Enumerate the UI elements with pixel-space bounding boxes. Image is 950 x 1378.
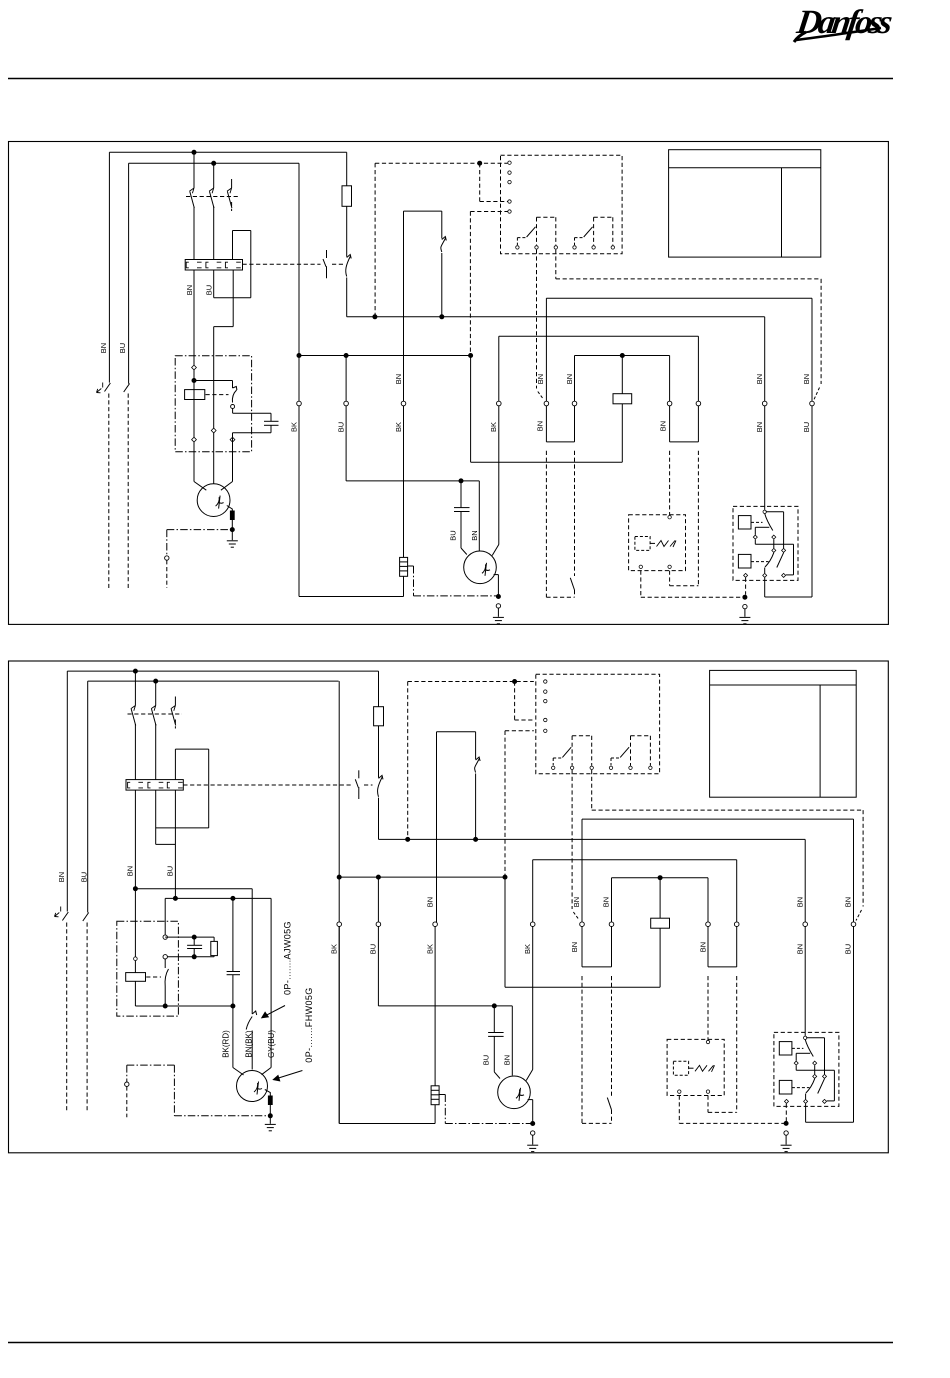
wire BN drop M2 d2 <box>511 1006 513 1076</box>
F1 trip link <box>243 263 321 265</box>
cord M2 drop d2 <box>444 1095 446 1124</box>
connector pin <box>192 437 197 442</box>
bottom rule <box>8 1342 893 1344</box>
wire to ground X1 <box>744 609 746 617</box>
wire relay left <box>164 898 166 934</box>
wire L1 left drop <box>108 152 110 382</box>
wire BN(BK) drop2 <box>251 1031 253 1070</box>
motor compressor M1 d2 <box>237 1071 268 1102</box>
terminal <box>530 922 535 927</box>
wire K4 return d2 <box>806 1121 854 1123</box>
junction <box>459 479 463 483</box>
bus coil d2 <box>612 877 709 879</box>
B1 d2 pin x591.7 <box>590 766 593 769</box>
wire cap top d2 <box>232 898 234 971</box>
wire BK3 drop d2 <box>532 927 534 1070</box>
svg-text:BN: BN <box>795 944 804 954</box>
B1 contact blade 2 <box>575 227 593 245</box>
run relay coil K3 d2 <box>651 918 670 928</box>
wire into heater3 <box>232 231 234 260</box>
lead tapers M2 d2 <box>494 1070 532 1081</box>
junction <box>231 896 235 900</box>
svg-text:BN: BN <box>755 374 764 384</box>
stub K1 pole3 out d2 <box>174 720 176 729</box>
wire to K1 pole2 <box>213 163 215 188</box>
cord M2 run <box>414 595 499 597</box>
contactor K1 pole 2 d2 <box>151 706 156 726</box>
motor fan M2 d2 <box>498 1076 531 1109</box>
start device X1 (dashed) <box>629 515 686 571</box>
terminal <box>344 401 349 406</box>
K4 loop right <box>793 544 795 575</box>
wire col BU1 d2 <box>377 877 379 922</box>
compartment M1 d2 (dash-dot) <box>117 921 179 1016</box>
ground X1 d2 <box>781 1145 792 1151</box>
terminal <box>376 922 381 927</box>
wire H898 <box>165 897 271 899</box>
pin <box>678 1090 681 1093</box>
wire to start cap <box>233 412 271 414</box>
wire col BN2 <box>764 317 766 401</box>
option switch 0P <box>246 1011 257 1030</box>
svg-text:0P-.......AJW05G: 0P-.......AJW05G <box>282 921 292 995</box>
cord M1 <box>167 529 233 531</box>
K4 stub3 d2 <box>805 1094 807 1100</box>
junction <box>173 896 177 900</box>
svg-text:BN: BN <box>658 421 667 431</box>
junction <box>478 161 482 165</box>
B1 d2 pin y681.5 <box>544 680 547 683</box>
wire H860 <box>533 859 737 861</box>
ctrl dashed drop <box>374 163 376 317</box>
wire cap return <box>233 432 272 434</box>
switch contact Q1 d2 <box>378 775 383 796</box>
connector pin <box>772 548 776 552</box>
terminal <box>572 401 577 406</box>
svg-text:Danfoss: Danfoss <box>794 4 895 41</box>
wire GY drop <box>270 898 272 1067</box>
K4 top link <box>766 511 784 513</box>
switch contact Q1 <box>346 255 351 277</box>
thermal protector M1 d2 <box>265 1090 272 1116</box>
dashed drop pin3 d2 <box>591 770 593 810</box>
svg-text:BN: BN <box>425 897 434 907</box>
start relay coil K2 d2 <box>126 973 146 982</box>
wire K4 return <box>765 596 812 598</box>
connector pin <box>772 535 776 539</box>
svg-text:BN: BN <box>125 866 134 876</box>
wire coil bottom <box>621 404 623 462</box>
wire to fuse d2 <box>378 671 380 707</box>
motor fan M2 <box>464 551 497 584</box>
Danfoss logo <box>794 4 895 42</box>
ctrl dashed step <box>479 163 481 201</box>
dashed lead-in right <box>814 388 820 400</box>
svg-text:BK: BK <box>329 944 338 954</box>
K4 d2 blade 3 <box>818 1079 825 1094</box>
pin <box>706 1090 709 1093</box>
wire cap2 top <box>460 481 462 508</box>
B1 tab 2 <box>594 217 613 245</box>
bus coil <box>575 355 670 357</box>
lead tapers M2 <box>461 545 499 556</box>
wire to K1 pole1 d2 <box>134 671 136 705</box>
K4 mid rail <box>755 527 769 535</box>
junction <box>492 1004 496 1008</box>
svg-text:BU: BU <box>481 1055 490 1065</box>
wire K1 pole2 out d2 <box>155 724 157 780</box>
W1 right leg <box>441 253 443 317</box>
junction <box>192 955 196 959</box>
switch S-plug BN d2 <box>62 912 68 921</box>
dashed X1 out2 <box>669 571 671 586</box>
terminal <box>297 401 302 406</box>
wire coil out d2 <box>134 981 136 1006</box>
K4 long rail d2 <box>796 1069 834 1071</box>
wire coil bottom d2 <box>659 928 661 987</box>
junction <box>231 1004 235 1008</box>
wire sd left d2 <box>707 927 709 967</box>
wire BU cord d2 <box>86 923 88 1113</box>
junction <box>268 1114 272 1118</box>
svg-text:BU: BU <box>844 944 853 954</box>
connector pin <box>823 1074 827 1078</box>
B1 pin y201.5 <box>508 200 511 203</box>
svg-text:BN: BN <box>536 374 545 384</box>
wire th join <box>546 441 574 443</box>
ctrl dashed pin5 <box>470 211 507 213</box>
svg-text:BN: BN <box>570 942 579 952</box>
ctrl dashed step2 <box>480 201 508 203</box>
wire sd right <box>697 406 699 442</box>
terminal <box>165 556 169 560</box>
starting relay W1 outline <box>404 211 442 238</box>
wire K1 pole2 out <box>213 207 215 260</box>
junction <box>469 354 473 358</box>
type table 1 <box>669 150 821 257</box>
wire to K1 pole1 <box>193 152 195 188</box>
dashed to ground right <box>641 596 745 598</box>
wire riser bottom <box>214 297 251 299</box>
wire L2 drop d2 <box>87 681 89 912</box>
snubber capacitor C3 <box>187 945 202 948</box>
terminal <box>762 401 767 406</box>
svg-text:BU: BU <box>118 343 127 353</box>
run capacitor C2 <box>454 508 470 512</box>
wire Q1 out <box>346 278 348 317</box>
cord M1 d2 tail <box>126 1086 128 1117</box>
wire L2 top d2 <box>88 680 339 682</box>
dashed to ground right d2 <box>679 1122 786 1124</box>
connector pin <box>744 573 748 577</box>
contactor K1 pole 1 d2 <box>131 706 136 726</box>
K1 linkage d2 <box>128 713 183 715</box>
svg-text:BN: BN <box>57 872 66 882</box>
pin <box>668 516 671 519</box>
timer/thermostat unit B1 (dashed) <box>501 155 623 254</box>
wire L1 top <box>109 151 346 153</box>
thermostat B2 (dashed) <box>546 451 574 598</box>
svg-text:BK: BK <box>289 422 298 432</box>
connector pin <box>813 1061 817 1065</box>
wire H298 <box>546 297 812 299</box>
svg-text:BK: BK <box>425 944 434 954</box>
stub K1 pole3 out <box>231 202 233 211</box>
wire contact out d2 <box>164 987 166 1007</box>
K4 link A d2 <box>792 1047 804 1049</box>
type table 2 <box>710 670 857 797</box>
wire th right <box>574 406 576 442</box>
junction <box>474 837 478 841</box>
terminal <box>125 1082 129 1086</box>
wire to fuse F2 <box>346 152 348 186</box>
dashed lead-in BN <box>538 392 544 400</box>
wire sd right d2 <box>736 927 738 967</box>
junction <box>154 679 158 683</box>
K4 long rail <box>755 543 793 545</box>
svg-text:BU: BU <box>166 866 175 876</box>
bus left d2 <box>339 876 505 878</box>
svg-text:BN: BN <box>755 422 764 432</box>
terminal <box>163 955 167 959</box>
svg-text:BU: BU <box>448 530 457 540</box>
wire to K4 <box>764 406 766 510</box>
wire BK3 drop <box>498 406 500 545</box>
K4 coil A <box>738 516 751 529</box>
wire RC top <box>165 936 214 938</box>
ctrl dashed step2 d2 <box>515 719 534 721</box>
connector pin <box>794 1061 798 1065</box>
svg-text:BN: BN <box>795 897 804 907</box>
wire sd join <box>670 441 699 443</box>
wire heater2 out d2 <box>155 790 157 844</box>
svg-text:BN: BN <box>394 374 403 384</box>
terminal <box>231 405 235 409</box>
wire col BK1 d2 <box>338 681 340 1123</box>
pin <box>804 1036 807 1039</box>
terminal <box>580 922 585 927</box>
cord M2 drop <box>413 566 415 596</box>
wire col BN5 <box>669 356 671 402</box>
wire Q1 out d2 <box>378 798 380 840</box>
B1 d2 pin x553.2 <box>552 766 555 769</box>
svg-text:BN: BN <box>602 897 611 907</box>
connector pin <box>823 1099 827 1103</box>
wire coil return <box>471 461 623 463</box>
svg-text:BN: BN <box>535 421 544 431</box>
B1 pin y211.5 <box>508 210 511 213</box>
supply cord mark <box>55 907 61 917</box>
wire col BN3 <box>697 336 699 401</box>
wire riser bottom d2 <box>156 827 209 829</box>
junction <box>192 379 196 383</box>
svg-text:BN: BN <box>503 1055 512 1065</box>
K2 linkage d2 <box>146 976 161 978</box>
wire BN to motor <box>193 270 195 482</box>
start relay coil K2 <box>185 390 205 400</box>
overload relay F1 <box>185 260 242 271</box>
dashed K4 ground lead d2 <box>785 1104 787 1121</box>
svg-text:BN: BN <box>470 530 479 540</box>
terminal <box>337 922 342 927</box>
B1 d2 pin y701.1 <box>544 699 547 702</box>
ctrl dashed step d2 <box>514 682 516 721</box>
wire col BN1 <box>545 298 547 401</box>
K4 loop bottom <box>786 574 794 576</box>
wire BU cord <box>127 394 129 589</box>
wire snubC top <box>193 937 195 945</box>
dashed drop right d2 <box>862 810 864 906</box>
terminal <box>696 401 701 406</box>
connector pin <box>804 1099 808 1103</box>
dashed K4 ground lead <box>745 578 747 595</box>
connector pin <box>785 1099 789 1103</box>
terminal <box>851 922 856 927</box>
dashed drop right <box>820 279 822 384</box>
contactor K1 pole 3 <box>227 188 232 208</box>
connector pin <box>813 1074 817 1078</box>
wire heater2 out <box>213 270 215 298</box>
arrow AJW05G <box>262 1006 285 1018</box>
dashed drop pin2 d2 <box>571 770 573 909</box>
wire th right d2 <box>611 927 613 967</box>
B1 d2 contact blade 2 <box>611 747 629 765</box>
B1 d2 pin x650.4 <box>649 766 652 769</box>
fuse F2 <box>342 186 352 207</box>
wire BN drop d2 <box>134 790 136 973</box>
connector pin <box>782 548 786 552</box>
M2 bottom lead <box>494 575 499 596</box>
terminal <box>743 604 747 608</box>
fuse F2 d2 <box>374 707 384 726</box>
wire cap2 top d2 <box>493 1006 495 1033</box>
cord M2 run d2 <box>445 1123 532 1125</box>
junction <box>297 354 301 358</box>
connector pin <box>782 573 786 577</box>
svg-text:BK: BK <box>489 422 498 432</box>
wire coil top <box>621 356 623 394</box>
B1 pin x517.4 <box>516 246 519 249</box>
contactor K1 pole 1 <box>189 188 194 208</box>
K4 link B <box>751 561 769 563</box>
dashed run right d2 <box>592 809 863 811</box>
B1 pin x536.5 <box>535 246 538 249</box>
K4 stub3 <box>764 568 766 574</box>
wire contact top d2 <box>164 959 166 968</box>
wire col BN1 d2 <box>581 819 583 922</box>
wire to ground X1 d2 <box>785 1135 787 1144</box>
K4 stub d2 <box>795 1065 797 1070</box>
bus left <box>299 355 471 357</box>
svg-text:BU: BU <box>336 422 345 432</box>
wire H819 <box>582 818 854 820</box>
wire K1 pole1 out d2 <box>134 724 136 780</box>
ground M1 d2 <box>265 1124 276 1130</box>
run capacitor C2 d2 <box>488 1033 504 1037</box>
svg-text:BN: BN <box>185 285 194 295</box>
svg-text:BN: BN <box>565 374 574 384</box>
B1 pin y172.6 <box>508 171 511 174</box>
PTC start relay K4 d2 (dashed) <box>774 1032 839 1106</box>
ctrl dashed pin5 drop <box>469 212 471 356</box>
cord M2 hook <box>408 565 414 567</box>
wire BK2 drop d2 <box>434 927 436 1086</box>
junction <box>376 875 380 879</box>
wire BNr drop <box>811 406 813 597</box>
svg-text:BN: BN <box>844 897 853 907</box>
lead tapers M1 <box>194 482 233 491</box>
connector pin <box>763 573 767 577</box>
K1 linkage <box>186 196 240 198</box>
wire BU to motor <box>213 327 215 484</box>
pin <box>763 510 766 513</box>
wire th left d2 <box>581 927 583 967</box>
connector pin <box>192 365 197 370</box>
K4 d2 coil A <box>779 1042 792 1055</box>
heater resistor R1 <box>400 557 408 576</box>
wire BNr drop d2 <box>853 927 855 1123</box>
junction <box>163 1004 167 1008</box>
wire BU1 drop d2 <box>377 927 379 1006</box>
wire BK column mid d2 <box>436 732 438 924</box>
lead M1 aux <box>232 452 234 482</box>
svg-text:BU: BU <box>802 422 811 432</box>
K4 blade 3 <box>777 553 784 568</box>
wire BK1 drop <box>298 406 300 597</box>
B1 d2 tab 2 <box>631 736 651 766</box>
stub K1 pole3 <box>231 179 233 188</box>
wire to ground M2 d2 <box>532 1135 534 1144</box>
terminal <box>163 935 167 939</box>
B1 tab 1 <box>537 217 556 245</box>
wire pin5 drop <box>470 356 472 463</box>
wire start contact top <box>232 381 234 389</box>
K4 link A <box>751 521 763 523</box>
terminal <box>667 401 672 406</box>
junction <box>503 875 507 879</box>
wire pin5 drop2 d2 <box>504 877 506 987</box>
K4 stub2 <box>773 539 775 548</box>
terminal <box>706 922 711 927</box>
wire BK(RD) drop <box>232 1006 234 1068</box>
wire to ground M1 <box>231 530 233 541</box>
W1 right leg d2 <box>475 774 477 840</box>
wire BU1 drop <box>345 406 347 481</box>
cord M1 d2 drop <box>126 1065 128 1082</box>
junction <box>440 315 444 319</box>
run relay coil K3 <box>613 394 632 404</box>
B1 d2 pin y691.6 <box>544 690 547 693</box>
pin <box>639 565 642 568</box>
wire jog d2 <box>156 843 176 845</box>
B1 d2 pin x572.1 <box>570 766 573 769</box>
junction <box>337 875 341 879</box>
wire RC bottom <box>165 956 214 958</box>
terminal <box>803 922 808 927</box>
compartment M1 (dash-dot) <box>175 356 251 452</box>
wire L1 drop d2 <box>66 671 68 911</box>
stub K1 pole3 d2 <box>174 697 176 706</box>
junction <box>406 837 410 841</box>
B1 d2 pin y730.8 <box>544 729 547 732</box>
wire to ground M1 d2 <box>269 1116 271 1124</box>
overload trip contact F1 <box>323 250 327 278</box>
wire BN drop M2 <box>478 481 480 551</box>
terminal <box>497 401 502 406</box>
W1 internal contact <box>441 237 446 253</box>
wire sd left <box>669 406 671 442</box>
wire th join d2 <box>582 966 612 968</box>
